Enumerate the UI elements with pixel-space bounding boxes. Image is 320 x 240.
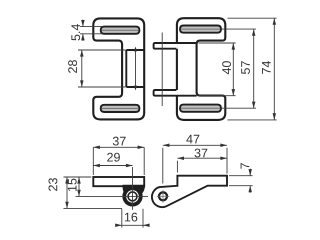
leaf B side plate + knuckle arm: [152, 176, 227, 207]
dim 28 label: [68, 60, 77, 73]
barrel horizontal center line: [117, 195, 148, 197]
dim 7 label: [241, 163, 250, 169]
leaf B bottom knuckle arm white body: [154, 90, 178, 96]
leaf A bottom slot: [101, 105, 140, 112]
dim 15 line: [78, 177, 80, 196]
dim 16 ext lines: [121, 209, 123, 228]
leaf A pin axis: [135, 48, 137, 90]
dim 16 line with outside arrows: [116, 224, 121, 226]
knuckle hole circle: [159, 192, 167, 200]
dim 16 label: [125, 213, 137, 222]
leaf A top slot center line: [102, 29, 139, 31]
dim 29 line: [93, 165, 132, 167]
barrel pin ring: [128, 192, 137, 201]
dim 74 label: [262, 61, 271, 74]
dim 28 line: [81, 50, 83, 87]
dim 23 bottom ext line: [64, 207, 123, 209]
dim 47 label: [186, 135, 199, 144]
dim 15 label: [68, 179, 77, 191]
leaf B top slot center line: [181, 28, 220, 30]
dim 37 label: [195, 149, 208, 158]
leaf A top slot: [101, 27, 140, 34]
dim 74 extension lines: [228, 17, 277, 19]
barrel bore white: [126, 190, 139, 203]
dim 57 label: [241, 61, 250, 74]
leaf A barrel top edge: [126, 49, 144, 51]
dim 23 label: [48, 178, 57, 191]
barrel outer disc: [122, 186, 142, 206]
knuckle hole cross h: [157, 195, 169, 197]
leaf A side plate: [93, 177, 144, 186]
pin axis bottom arrow: [134, 86, 137, 91]
dim 47 ext lines: [162, 148, 164, 184]
dim 37 line: [177, 157, 227, 159]
leaf A bottom slot center line: [102, 107, 139, 109]
dim 7 line with outside arrows: [249, 169, 251, 176]
dim 23 line: [66, 177, 68, 208]
leaf B bottom knuckle arm outline: [154, 90, 197, 96]
hinge pin center line: [161, 33, 163, 107]
dim 57 extension lines: [222, 28, 256, 30]
dim 40 extension lines: [199, 42, 236, 44]
dim 15 bottom ext line: [76, 195, 118, 197]
dim 37 (bottom-right) ext line: [176, 161, 178, 173]
dim 40 line: [232, 43, 234, 96]
leaf B top knuckle arm outline: [154, 43, 197, 49]
leaf B top slot: [180, 26, 221, 33]
dim 40 label: [222, 61, 231, 74]
dim 5.4 label: [71, 24, 80, 41]
dim 37 label: [113, 137, 126, 146]
leaf B top knuckle arm white body: [154, 43, 178, 49]
leaf B bottom slot center line: [181, 107, 220, 109]
dim 5.4 line with outside arrows: [82, 20, 84, 27]
dim 29 label: [107, 153, 120, 162]
leaf A barrel bottom edge: [126, 86, 144, 88]
leaf A outline: [93, 18, 144, 119]
dim 47 line: [163, 144, 227, 146]
dim 37 line: [93, 146, 144, 148]
pin axis top arrow: [134, 47, 137, 52]
knuckle hole cross v: [162, 190, 164, 202]
barrel vertical center line: [132, 167, 134, 210]
dim 7 ext lines: [229, 175, 253, 177]
dim 57 line: [253, 29, 255, 108]
dim 23/15 shared top ext line: [64, 176, 92, 178]
leaf B outline: [177, 18, 225, 120]
leaf B bottom slot: [180, 105, 221, 112]
dim 37 (bottom-left) ext lines: [92, 147, 94, 175]
dim 28 extension lines: [78, 49, 126, 51]
dim 5.4 extension lines: [80, 26, 103, 28]
dim 74 line: [273, 18, 275, 120]
barrel junction fill to plate: [123, 185, 145, 196]
leaf A barrel left edge: [125, 50, 127, 87]
